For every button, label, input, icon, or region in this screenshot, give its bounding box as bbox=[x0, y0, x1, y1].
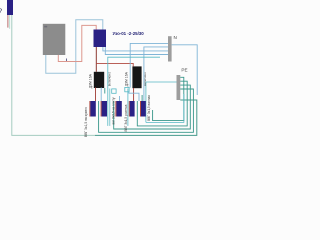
group box edge (cyan) bbox=[109, 89, 111, 126]
wire N out of RCD to N bar (lower) bbox=[105, 47, 168, 55]
wire PE hook 2 bbox=[137, 81, 187, 126]
group box D bathroom (cyan) bbox=[146, 82, 177, 122]
wire N drop 1 from bar to group3 bbox=[130, 43, 168, 87]
svg-text:ВВГ 3х1,5 ванная: ВВГ 3х1,5 ванная bbox=[147, 95, 151, 121]
svg-text:PE: PE bbox=[181, 68, 187, 73]
wire PE stub to cable 5 bbox=[141, 95, 143, 101]
wire L input (dark red stub) bbox=[7, 15, 9, 28]
terminal row: cable 5 bbox=[140, 101, 141, 117]
wire N stub to cable 3 bbox=[119, 96, 121, 101]
wire L under breaker Q1 bbox=[95, 87, 97, 101]
wire PE stub to cable 2 bbox=[104, 88, 106, 94]
svg-text:N: N bbox=[174, 35, 177, 40]
svg-text:ВВГ 3х1,5 на кухню: ВВГ 3х1,5 на кухню bbox=[84, 107, 88, 137]
wire PE left run down to bottom bus bbox=[12, 15, 95, 135]
bus PE (gray bar) bbox=[177, 75, 181, 100]
group box edge (cyan) bbox=[127, 89, 129, 126]
wire L under breaker Q2 bbox=[133, 88, 135, 101]
terminal row: cable 3 bbox=[115, 101, 116, 117]
wire PE stub (pale teal) bbox=[9, 15, 11, 29]
svg-text:ДЗМ 16А: ДЗМ 16А bbox=[124, 71, 128, 86]
bus N (gray bar) bbox=[168, 36, 172, 61]
svg-text:включено: включено bbox=[107, 72, 111, 86]
terminal row: cable 2 bbox=[101, 101, 102, 117]
terminal row: cable 4 bbox=[129, 101, 130, 117]
junction box J2 (small cyan square) bbox=[125, 87, 129, 91]
breaker Q2 (black) bbox=[132, 66, 141, 88]
junction box J1 (small cyan square) bbox=[112, 89, 116, 93]
wire PE hook 4 bbox=[99, 89, 194, 132]
wire L branch to breaker2 (red) bbox=[96, 63, 133, 66]
meter M (gray box) bbox=[43, 24, 66, 55]
wire N loop meter to RCD (light blue) bbox=[46, 20, 103, 74]
wire PE bottom run to PE bar bbox=[95, 100, 197, 135]
svg-text:Узо-01 -2-25/30: Узо-01 -2-25/30 bbox=[113, 31, 145, 36]
wire L loop meter to RCD (salmon) bbox=[58, 25, 96, 61]
terminal X1 (input block top-left) bbox=[7, 0, 13, 15]
svg-text:ввг 3х2,5 на плиту: ввг 3х2,5 на плиту bbox=[111, 97, 115, 124]
group bracket (cyan top) bbox=[108, 57, 160, 126]
wire L out of RCD (dark red down) bbox=[95, 47, 97, 72]
svg-text:ДЗМ 16А: ДЗМ 16А bbox=[88, 73, 92, 88]
wire N under breaker Q1 bbox=[100, 87, 102, 101]
wire N under breaker Q2 bbox=[129, 92, 139, 101]
wire PE hook 1 bbox=[153, 77, 184, 120]
breaker Q1 (black) bbox=[94, 72, 104, 88]
wire N right feed from bar bbox=[172, 45, 198, 95]
wire PE hook 3 bbox=[114, 85, 191, 129]
terminal row: cable 1 bbox=[89, 101, 90, 117]
wire N out of RCD to N bar (upper) bbox=[103, 47, 168, 51]
wire N drop 2 from bar to group5 bbox=[144, 47, 168, 101]
svg-text:включено: включено bbox=[143, 72, 147, 86]
svg-text:ВВГ 3х1,5 розетка: ВВГ 3х1,5 розетка bbox=[124, 104, 128, 131]
RCD U1 (navy box) bbox=[94, 30, 107, 48]
